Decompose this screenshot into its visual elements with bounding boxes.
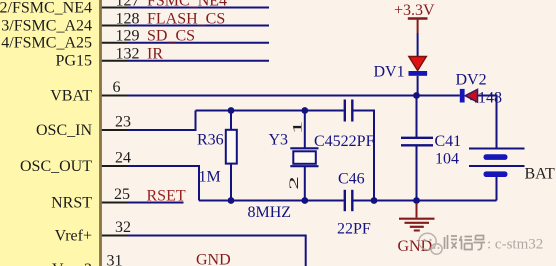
wire net SD_CS bbox=[128, 42, 269, 44]
wire Vref+ bbox=[128, 236, 306, 266]
svg-text:104: 104 bbox=[435, 151, 459, 168]
svg-text:FLASH_CS: FLASH_CS bbox=[147, 10, 225, 27]
wire net IR bbox=[128, 60, 269, 62]
wire OSC_IN bbox=[128, 111, 196, 131]
watermark wechat icon bbox=[419, 233, 442, 254]
svg-text:IR: IR bbox=[147, 46, 163, 63]
svg-text:Vref+: Vref+ bbox=[55, 228, 92, 245]
svg-text:6: 6 bbox=[113, 79, 121, 96]
pin 132 stub bbox=[102, 60, 128, 62]
svg-text:25: 25 bbox=[114, 186, 130, 203]
diode DV1 bbox=[409, 57, 427, 71]
svg-text:3/FSMC_A24: 3/FSMC_A24 bbox=[1, 18, 92, 35]
wire net RSET bbox=[128, 202, 184, 204]
svg-text:BAT: BAT bbox=[525, 166, 555, 183]
junction Y3 top bbox=[301, 107, 308, 114]
svg-text:Vss_3: Vss_3 bbox=[52, 261, 92, 266]
svg-text:OSC_IN: OSC_IN bbox=[36, 122, 92, 139]
svg-text:DV1: DV1 bbox=[374, 64, 405, 81]
junction Y3 bottom bbox=[301, 197, 308, 204]
svg-text:1: 1 bbox=[290, 121, 304, 135]
svg-text:VBAT: VBAT bbox=[50, 88, 92, 105]
diode DV2 bbox=[460, 89, 465, 103]
junction GND node bbox=[413, 197, 420, 204]
IC body border bbox=[99, 0, 102, 266]
capacitor C46 bbox=[344, 190, 346, 211]
svg-text:127: 127 bbox=[116, 0, 140, 9]
svg-text:FSMC_NE4: FSMC_NE4 bbox=[147, 0, 227, 9]
junction R36 bottom bbox=[228, 197, 235, 204]
ground GND bbox=[416, 203, 418, 217]
wire VBAT to DV2 bbox=[417, 95, 460, 97]
pin 24 OSC_OUT stub bbox=[102, 165, 128, 167]
junction R36 top bbox=[228, 107, 235, 114]
svg-text:31: 31 bbox=[107, 253, 123, 266]
svg-text:+3.3V: +3.3V bbox=[394, 2, 435, 19]
svg-text:23: 23 bbox=[115, 114, 131, 131]
junction VBAT node bbox=[413, 92, 420, 99]
svg-text:GND: GND bbox=[196, 252, 231, 266]
IC body U1 (partial, left) bbox=[0, 0, 99, 266]
svg-text:C4522PF: C4522PF bbox=[314, 133, 375, 150]
wire VBAT net bbox=[128, 95, 417, 97]
watermark text 微信号: c-stm32 bbox=[445, 235, 486, 250]
svg-text:DV2: DV2 bbox=[456, 72, 487, 89]
svg-text:GND: GND bbox=[398, 238, 433, 255]
svg-text:2/FSMC_NE4: 2/FSMC_NE4 bbox=[0, 0, 92, 17]
svg-text:R36: R36 bbox=[197, 132, 224, 149]
svg-text:4/FSMC_A25: 4/FSMC_A25 bbox=[1, 35, 92, 52]
capacitor C45 bbox=[344, 100, 346, 122]
wire C45 right to corner bbox=[354, 111, 375, 201]
junction corner node bbox=[371, 197, 378, 204]
svg-text:22PF: 22PF bbox=[337, 221, 371, 238]
resistor R36 bbox=[230, 111, 232, 132]
pin 127 stub bbox=[102, 7, 128, 9]
svg-text:: c-stm32: : c-stm32 bbox=[487, 237, 543, 253]
svg-text:SD_CS: SD_CS bbox=[147, 28, 195, 45]
svg-text:C46: C46 bbox=[338, 171, 365, 188]
svg-text:OSC_OUT: OSC_OUT bbox=[20, 158, 92, 175]
crystal Y3 bbox=[304, 111, 306, 149]
pin 32 Vref+ stub bbox=[102, 235, 128, 237]
svg-text:129: 129 bbox=[116, 28, 140, 45]
svg-text:NRST: NRST bbox=[51, 195, 92, 212]
wire net FLASH_CS bbox=[128, 25, 269, 27]
svg-text:8MHZ: 8MHZ bbox=[248, 204, 292, 221]
svg-text:PG15: PG15 bbox=[56, 53, 92, 70]
svg-text:32: 32 bbox=[115, 219, 131, 236]
svg-text:RSET: RSET bbox=[147, 188, 186, 205]
pin number 2 (rotated) bbox=[287, 176, 301, 190]
svg-text:1M: 1M bbox=[199, 169, 221, 186]
svg-text:C41: C41 bbox=[435, 133, 462, 150]
top rail wire (OSC_IN side) bbox=[196, 110, 344, 112]
pin 129 stub bbox=[102, 42, 128, 44]
svg-text:128: 128 bbox=[116, 10, 140, 27]
pin 23 OSC_IN stub bbox=[102, 129, 128, 131]
pin number 1 (rotated) bbox=[290, 121, 304, 135]
svg-text:Y3: Y3 bbox=[269, 132, 289, 149]
wire OSC_OUT bbox=[128, 166, 199, 201]
wire +3.3V to DV1 bbox=[417, 33, 419, 57]
capacitor C41 bbox=[416, 96, 418, 138]
pin 25 NRST stub bbox=[102, 202, 128, 204]
battery BAT bbox=[469, 148, 525, 150]
pin 6 VBAT stub bbox=[102, 95, 128, 97]
svg-text:2: 2 bbox=[287, 176, 301, 190]
bottom rail wire (OSC_OUT side) bbox=[199, 200, 344, 202]
svg-text:132: 132 bbox=[116, 46, 140, 63]
svg-text:24: 24 bbox=[115, 150, 131, 167]
wire net FSMC_NE4 bbox=[128, 7, 269, 9]
bottom rail wire right of C46 bbox=[354, 200, 497, 202]
wire DV2 to battery corner bbox=[478, 96, 497, 149]
pin 128 stub bbox=[102, 25, 128, 27]
